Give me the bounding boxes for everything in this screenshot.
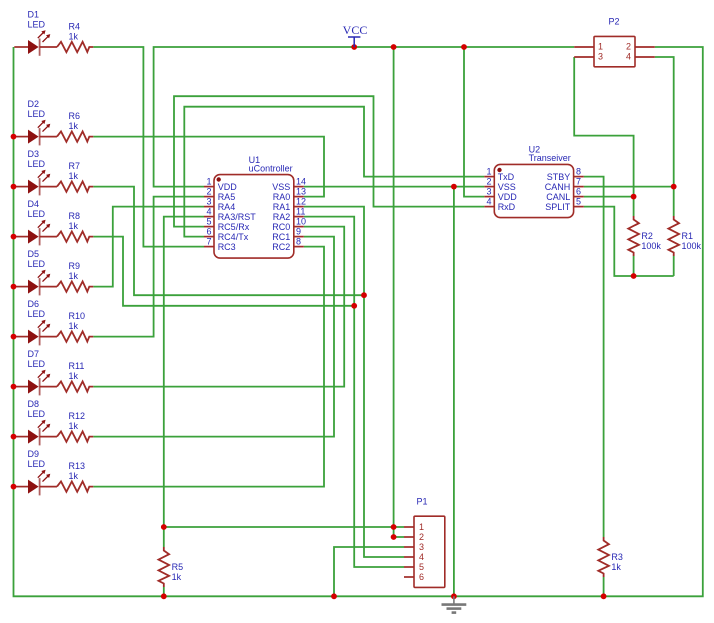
- svg-text:D1: D1: [28, 10, 40, 20]
- svg-text:5: 5: [419, 562, 424, 572]
- svg-text:100k: 100k: [682, 241, 702, 251]
- svg-text:RA0: RA0: [273, 192, 291, 202]
- svg-text:1: 1: [206, 176, 211, 186]
- svg-text:100k: 100k: [641, 241, 661, 251]
- svg-text:LED: LED: [28, 209, 46, 219]
- svg-text:RC4/Tx: RC4/Tx: [218, 232, 249, 242]
- svg-text:R5: R5: [172, 562, 184, 572]
- svg-text:7: 7: [576, 176, 581, 186]
- svg-text:5: 5: [576, 196, 581, 206]
- svg-text:4: 4: [419, 552, 424, 562]
- svg-text:R1: R1: [682, 231, 694, 241]
- svg-text:1k: 1k: [69, 321, 79, 331]
- svg-text:12: 12: [296, 196, 306, 206]
- svg-text:6: 6: [576, 186, 581, 196]
- svg-text:STBY: STBY: [547, 172, 571, 182]
- svg-text:LED: LED: [28, 459, 46, 469]
- svg-text:1k: 1k: [69, 471, 79, 481]
- svg-text:VSS: VSS: [272, 182, 290, 192]
- svg-text:R3: R3: [611, 552, 623, 562]
- svg-text:RA3/RST: RA3/RST: [218, 212, 257, 222]
- svg-text:2: 2: [626, 42, 631, 52]
- svg-text:R10: R10: [69, 311, 86, 321]
- svg-text:9: 9: [296, 226, 301, 236]
- svg-text:1k: 1k: [69, 171, 79, 181]
- svg-text:1: 1: [598, 42, 603, 52]
- svg-text:2: 2: [486, 176, 491, 186]
- svg-text:R2: R2: [641, 231, 653, 241]
- svg-text:1k: 1k: [69, 371, 79, 381]
- svg-text:RC2: RC2: [272, 242, 290, 252]
- svg-text:LED: LED: [28, 109, 46, 119]
- svg-text:SPLIT: SPLIT: [545, 202, 571, 212]
- svg-text:D7: D7: [28, 349, 40, 359]
- svg-text:11: 11: [296, 206, 305, 216]
- svg-text:RC5/Rx: RC5/Rx: [218, 222, 250, 232]
- svg-text:D9: D9: [28, 449, 40, 459]
- svg-text:P1: P1: [417, 497, 428, 507]
- svg-text:Transeiver: Transeiver: [529, 153, 571, 163]
- svg-text:8: 8: [296, 236, 301, 246]
- svg-text:1k: 1k: [69, 271, 79, 281]
- svg-text:4: 4: [206, 206, 211, 216]
- svg-text:VSS: VSS: [498, 182, 516, 192]
- svg-text:LED: LED: [28, 359, 46, 369]
- svg-text:4: 4: [626, 52, 631, 62]
- svg-text:1k: 1k: [69, 121, 79, 131]
- svg-text:uController: uController: [249, 164, 293, 174]
- svg-text:RA2: RA2: [273, 212, 291, 222]
- svg-text:14: 14: [296, 176, 306, 186]
- svg-text:RC3: RC3: [218, 242, 236, 252]
- svg-text:R13: R13: [69, 461, 86, 471]
- svg-text:D2: D2: [28, 99, 40, 109]
- svg-text:R8: R8: [69, 211, 81, 221]
- svg-text:RA5: RA5: [218, 192, 236, 202]
- svg-text:5: 5: [206, 216, 211, 226]
- svg-text:6: 6: [206, 226, 211, 236]
- svg-text:2: 2: [419, 532, 424, 542]
- svg-text:VCC: VCC: [343, 23, 368, 37]
- svg-text:7: 7: [206, 236, 211, 246]
- svg-text:R6: R6: [69, 111, 81, 121]
- svg-text:3: 3: [486, 186, 491, 196]
- svg-text:R7: R7: [69, 161, 81, 171]
- svg-text:R11: R11: [69, 361, 85, 371]
- svg-text:R4: R4: [69, 21, 81, 31]
- svg-text:VDD: VDD: [498, 192, 518, 202]
- svg-text:LED: LED: [28, 409, 46, 419]
- svg-text:RC1: RC1: [272, 232, 290, 242]
- svg-text:LED: LED: [28, 259, 46, 269]
- svg-text:1: 1: [486, 166, 491, 176]
- svg-text:2: 2: [206, 186, 211, 196]
- svg-text:1k: 1k: [611, 562, 621, 572]
- svg-text:D4: D4: [28, 199, 40, 209]
- svg-text:8: 8: [576, 166, 581, 176]
- svg-text:6: 6: [419, 572, 424, 582]
- svg-text:R12: R12: [69, 411, 86, 421]
- svg-text:3: 3: [598, 52, 603, 62]
- svg-text:D6: D6: [28, 299, 40, 309]
- svg-text:RC0: RC0: [272, 222, 290, 232]
- svg-text:RA4: RA4: [218, 202, 236, 212]
- svg-text:13: 13: [296, 186, 306, 196]
- svg-text:4: 4: [486, 196, 491, 206]
- svg-text:1k: 1k: [172, 572, 182, 582]
- svg-text:R9: R9: [69, 261, 81, 271]
- svg-text:LED: LED: [28, 20, 46, 30]
- svg-text:TxD: TxD: [498, 172, 515, 182]
- svg-text:1k: 1k: [69, 221, 79, 231]
- svg-text:3: 3: [419, 542, 424, 552]
- svg-text:D3: D3: [28, 149, 40, 159]
- svg-text:LED: LED: [28, 309, 46, 319]
- svg-text:RA1: RA1: [273, 202, 291, 212]
- svg-text:RxD: RxD: [498, 202, 516, 212]
- svg-text:LED: LED: [28, 159, 46, 169]
- svg-text:CANL: CANL: [546, 192, 570, 202]
- svg-text:P2: P2: [609, 17, 620, 27]
- svg-text:1k: 1k: [69, 421, 79, 431]
- svg-text:1: 1: [419, 522, 424, 532]
- svg-text:D5: D5: [28, 249, 40, 259]
- svg-text:10: 10: [296, 216, 306, 226]
- svg-text:1k: 1k: [69, 31, 79, 41]
- svg-text:VDD: VDD: [218, 182, 238, 192]
- svg-text:D8: D8: [28, 399, 40, 409]
- svg-text:CANH: CANH: [545, 182, 571, 192]
- svg-text:3: 3: [206, 196, 211, 206]
